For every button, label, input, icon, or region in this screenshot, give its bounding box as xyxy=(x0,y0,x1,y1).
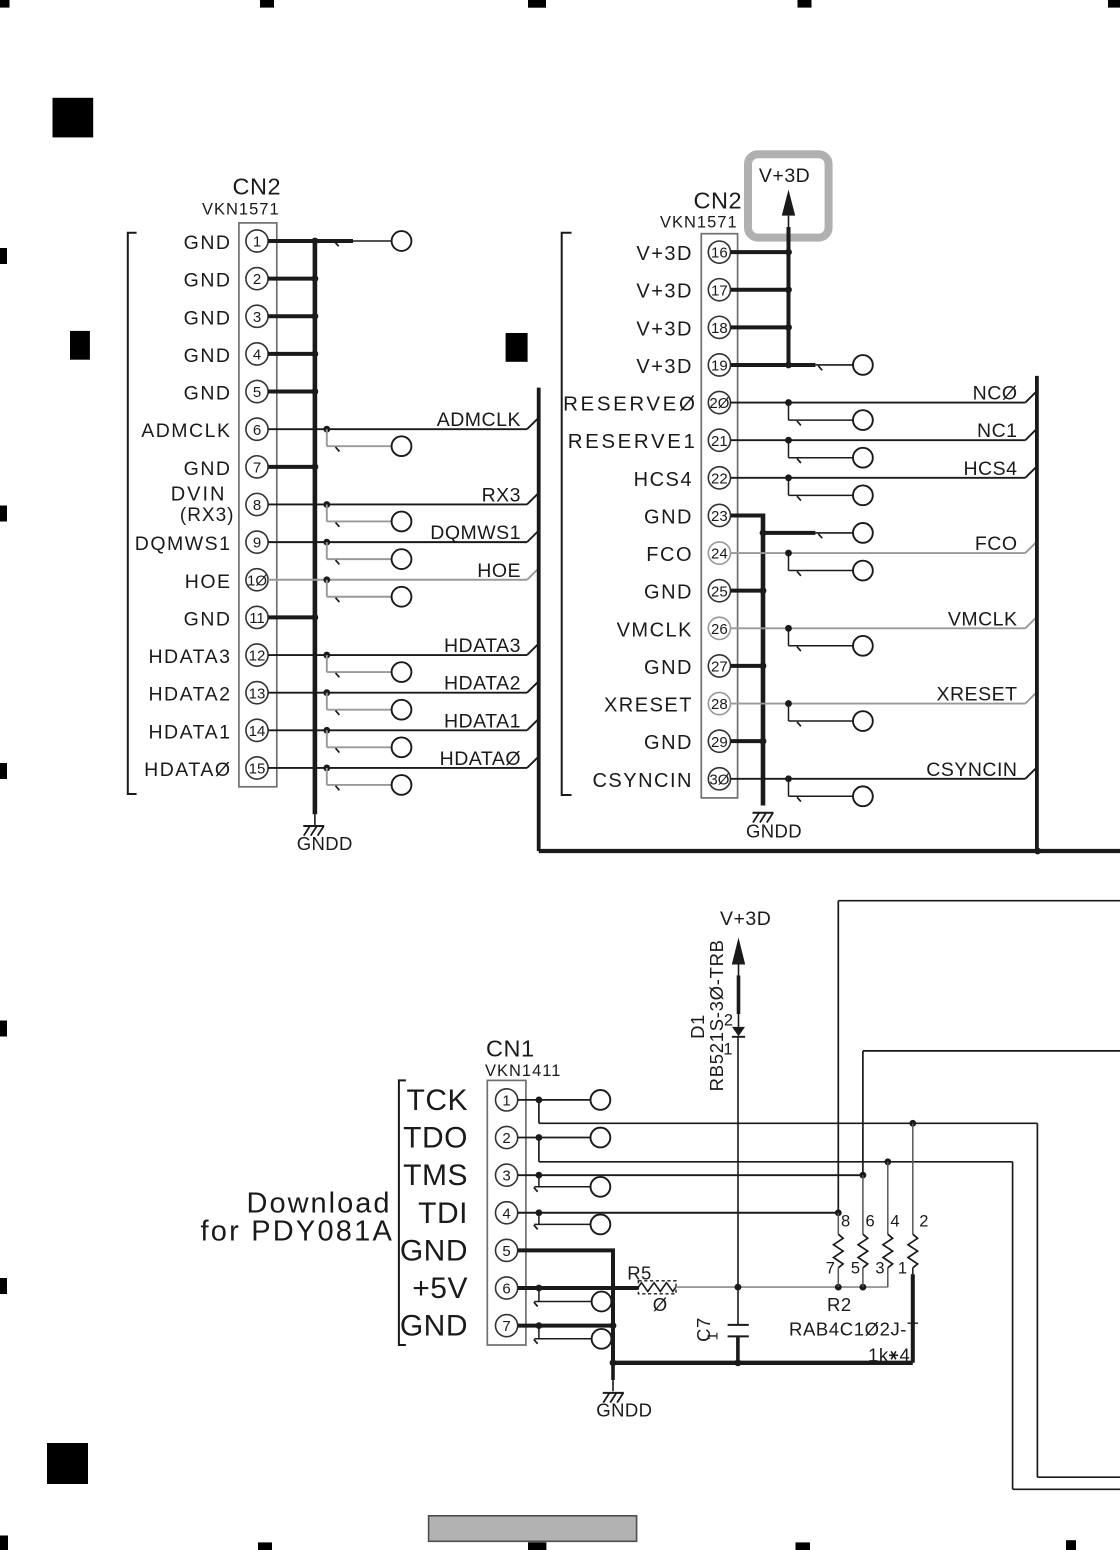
wire TMS (pin 3) xyxy=(518,1051,1120,1179)
svg-text:GNDD: GNDD xyxy=(596,1400,652,1421)
wire R5 to R2 commons xyxy=(676,1284,888,1291)
pin 13 circle (CN2 left) xyxy=(246,682,268,704)
svg-text:CN2: CN2 xyxy=(694,188,743,214)
svg-text:TDI: TDI xyxy=(418,1197,468,1230)
svg-text:1: 1 xyxy=(253,234,261,251)
svg-text:14: 14 xyxy=(249,723,266,740)
svg-text:GND: GND xyxy=(184,307,232,329)
test point circle TDI xyxy=(591,1215,611,1235)
test point branch DQMWS1 xyxy=(327,542,392,564)
test point branch HDATA1 xyxy=(327,730,392,752)
svg-text:8: 8 xyxy=(841,1213,851,1231)
connector CN2 (VKN1571) pins 16-30 body xyxy=(701,234,737,798)
svg-text:V+3D: V+3D xyxy=(759,165,810,187)
svg-text:2Ø: 2Ø xyxy=(709,395,729,412)
test point circle TDO xyxy=(591,1128,611,1148)
svg-text:HCS4: HCS4 xyxy=(963,458,1017,480)
V+3D arrow xyxy=(782,190,795,216)
test point circle FCO xyxy=(853,561,873,581)
test point branch ADMCLK xyxy=(327,429,392,451)
pin 2 circle (CN1) xyxy=(496,1126,518,1148)
svg-text:GND: GND xyxy=(644,506,693,528)
test point circle +5V xyxy=(592,1292,612,1312)
svg-text:HDATAØ: HDATAØ xyxy=(144,759,231,781)
wire TDO (pin 2) xyxy=(518,1134,1120,1489)
test point circle pin 1 xyxy=(392,231,412,251)
svg-text:HDATA1: HDATA1 xyxy=(148,721,231,743)
pin 20 circle (CN2 right) xyxy=(708,391,730,413)
wire left bus (off-page to bottom) xyxy=(539,388,1120,855)
pin 10 circle (CN2 left) xyxy=(246,569,268,591)
svg-text:VMCLK: VMCLK xyxy=(617,619,693,641)
pin 21 circle (CN2 right) xyxy=(708,429,730,451)
wire RX3 (pin 8) xyxy=(268,493,539,508)
wire HDATA2 (pin 13) xyxy=(268,681,539,696)
svg-text:23: 23 xyxy=(711,508,728,525)
test point circle NCØ xyxy=(853,410,873,430)
bracket pins 1-15 xyxy=(128,233,137,794)
test point circle HDATAØ xyxy=(392,775,412,795)
svg-text:1: 1 xyxy=(898,1259,908,1277)
svg-text:GND: GND xyxy=(184,458,232,480)
svg-text:13: 13 xyxy=(249,685,266,702)
svg-text:GND: GND xyxy=(644,732,693,754)
svg-text:GNDD: GNDD xyxy=(297,833,353,854)
svg-text:6: 6 xyxy=(502,1281,510,1298)
svg-text:GND: GND xyxy=(184,383,232,405)
svg-text:+5V: +5V xyxy=(412,1272,468,1305)
wire GND test point branch xyxy=(763,533,853,538)
svg-text:8: 8 xyxy=(253,497,261,514)
pin 19 circle (CN2 right) xyxy=(708,354,730,376)
svg-text:25: 25 xyxy=(711,583,728,600)
test point circle GND (right) xyxy=(853,523,873,543)
svg-text:4: 4 xyxy=(253,347,261,364)
svg-text:5: 5 xyxy=(502,1243,510,1260)
pin 1 circle (CN1) xyxy=(496,1089,518,1111)
svg-text:V+3D: V+3D xyxy=(636,281,693,303)
svg-text:7: 7 xyxy=(253,459,261,476)
svg-text:HCS4: HCS4 xyxy=(634,469,693,491)
svg-text:VKN1411: VKN1411 xyxy=(485,1062,561,1080)
svg-text:HDATA1: HDATA1 xyxy=(444,710,521,732)
wire HOE (pin 10) xyxy=(268,568,539,583)
wire GNDD net (CN1 bottom) xyxy=(610,1359,913,1391)
pin 3 circle (CN2 left) xyxy=(246,305,268,327)
test point circle pin 19 xyxy=(853,355,873,375)
connector CN2 (VKN1571) pins 1-15 body xyxy=(239,223,277,787)
wire FCO (pin 24) xyxy=(731,542,1037,557)
test point circle NC1 xyxy=(853,448,873,468)
wire VMCLK (pin 26) xyxy=(731,617,1037,632)
svg-text:VKN1571: VKN1571 xyxy=(202,201,280,219)
svg-text:1: 1 xyxy=(705,1332,722,1341)
svg-text:2: 2 xyxy=(919,1213,929,1231)
wire NCØ (pin 20) xyxy=(731,391,1037,406)
svg-text:22: 22 xyxy=(711,470,728,487)
svg-text:DQMWS1: DQMWS1 xyxy=(135,533,232,555)
svg-text:3: 3 xyxy=(875,1259,885,1277)
svg-text:4: 4 xyxy=(900,1345,911,1366)
test point branch NC1 xyxy=(789,440,854,463)
pin 7 circle (CN1) xyxy=(496,1315,518,1337)
pin 18 circle (CN2 right) xyxy=(708,316,730,338)
wire ADMCLK (pin 6) xyxy=(268,418,539,433)
svg-text:RAB4C1Ø2J-T: RAB4C1Ø2J-T xyxy=(789,1319,919,1340)
pin 27 circle (CN2 right) xyxy=(708,655,730,677)
wire HDATA3 (pin 12) xyxy=(268,644,539,659)
ground symbol GNDD (CN1) xyxy=(603,1393,624,1403)
pin 14 circle (CN2 left) xyxy=(246,719,268,741)
bracket CN1 pins xyxy=(399,1080,406,1345)
test point circle HDATA3 xyxy=(392,662,412,682)
svg-text:XRESET: XRESET xyxy=(936,684,1017,706)
wire HDATAØ (pin 15) xyxy=(268,756,539,771)
svg-text:GND: GND xyxy=(644,582,693,604)
svg-text:RB521S-3Ø-TRB: RB521S-3Ø-TRB xyxy=(706,939,727,1091)
pin 28 circle (CN2 right) xyxy=(708,692,730,714)
wire GND (pin 5) xyxy=(518,1250,615,1362)
pin 23 circle (CN2 right) xyxy=(708,504,730,526)
wire HDATA1 (pin 14) xyxy=(268,719,539,734)
capacitor C7 xyxy=(728,1325,749,1363)
wire XRESET (pin 28) xyxy=(731,692,1037,707)
svg-text:GND: GND xyxy=(184,345,232,367)
svg-text:CN1: CN1 xyxy=(486,1036,535,1062)
connector CN1 (VKN1411) body xyxy=(487,1080,526,1345)
pin 7 circle (CN2 left) xyxy=(246,456,268,478)
svg-text:11: 11 xyxy=(249,610,265,627)
svg-text:7: 7 xyxy=(826,1259,836,1277)
pin 16 circle (CN2 right) xyxy=(708,241,730,263)
svg-text:R5: R5 xyxy=(627,1262,652,1283)
test point branch GND (pin 7) xyxy=(534,1326,592,1344)
test point branch XRESET xyxy=(789,704,854,727)
pin 8 label DVIN (RX3) xyxy=(171,483,235,526)
svg-text:V+3D: V+3D xyxy=(636,356,693,378)
wire D1 anode to C7 xyxy=(737,1037,739,1325)
test point branch RX3 xyxy=(327,504,392,526)
svg-text:Ø: Ø xyxy=(653,1294,668,1315)
pin 25 circle (CN2 right) xyxy=(708,580,730,602)
svg-text:24: 24 xyxy=(711,546,728,563)
svg-text:FCO: FCO xyxy=(975,533,1018,555)
pin 3 circle (CN1) xyxy=(496,1164,518,1186)
power symbol V+3D (rounded box) xyxy=(748,154,829,237)
svg-text:GND: GND xyxy=(184,270,232,292)
test point circle TCK xyxy=(591,1090,611,1110)
svg-text:1k: 1k xyxy=(868,1345,889,1366)
svg-text:NC1: NC1 xyxy=(977,420,1018,442)
pin 4 circle (CN1) xyxy=(496,1202,518,1224)
test point circle ADMCLK xyxy=(392,436,412,456)
svg-text:ADMCLK: ADMCLK xyxy=(141,420,231,442)
wire TDI (pin 4) xyxy=(518,901,1120,1216)
svg-text:NCØ: NCØ xyxy=(973,383,1018,405)
svg-text:1: 1 xyxy=(502,1093,510,1110)
svg-text:6: 6 xyxy=(866,1213,876,1231)
svg-text:GND: GND xyxy=(184,232,232,254)
pin 15 circle (CN2 left) xyxy=(246,757,268,779)
svg-text:CSYNCIN: CSYNCIN xyxy=(592,770,693,792)
test point circle GND (pin 7) xyxy=(592,1329,612,1349)
wire GNDD bus (right CN2) xyxy=(731,515,767,805)
wire HCS4 (pin 22) xyxy=(731,466,1037,481)
resistor network R2 (RAB4C102J-T 1k*4) xyxy=(834,1123,918,1363)
svg-text:1Ø: 1Ø xyxy=(247,572,267,589)
svg-text:GND: GND xyxy=(400,1310,468,1343)
pin 1 circle (CN2 left) xyxy=(246,230,268,252)
svg-text:TCK: TCK xyxy=(407,1084,469,1117)
test point branch TDI xyxy=(534,1213,591,1230)
pin 2 circle (CN2 left) xyxy=(246,268,268,290)
wire GND (pin 7) xyxy=(518,1322,617,1329)
pin 12 circle (CN2 left) xyxy=(246,644,268,666)
test point branch FCO xyxy=(789,553,854,576)
svg-text:3: 3 xyxy=(502,1168,510,1185)
pin 24 circle (CN2 right) xyxy=(708,542,730,564)
wire CSYNCIN (pin 30) xyxy=(731,767,1037,782)
test point branch HDATA2 xyxy=(327,693,392,715)
test point circle HCS4 xyxy=(853,485,873,505)
test point branch HCS4 xyxy=(789,478,854,501)
svg-text:CSYNCIN: CSYNCIN xyxy=(926,759,1017,781)
svg-text:RESERVE1: RESERVE1 xyxy=(568,430,698,453)
pin 30 circle (CN2 right) xyxy=(708,768,730,790)
test point branch VMCLK xyxy=(789,628,854,651)
test point branch +5V xyxy=(534,1288,592,1307)
svg-text:17: 17 xyxy=(711,282,728,299)
wire V+3D rail xyxy=(731,216,792,369)
svg-text:GND: GND xyxy=(644,657,693,679)
test point circle HDATA2 xyxy=(392,700,412,720)
ground symbol GNDD (right CN2) xyxy=(753,813,774,823)
svg-text:VKN1571: VKN1571 xyxy=(660,214,738,232)
svg-text:29: 29 xyxy=(711,734,728,751)
svg-text:RX3: RX3 xyxy=(482,484,521,506)
pin 26 circle (CN2 right) xyxy=(708,617,730,639)
test point branch HDATAØ xyxy=(327,768,392,790)
wire pin 1 test point xyxy=(317,241,392,246)
svg-text:RESERVEØ: RESERVEØ xyxy=(563,393,697,416)
svg-text:9: 9 xyxy=(253,535,261,552)
svg-text:2: 2 xyxy=(253,271,261,288)
pin 4 circle (CN2 left) xyxy=(246,343,268,365)
test point circle HDATA1 xyxy=(392,737,412,757)
wire TCK (pin 1) xyxy=(518,1097,1120,1478)
wire pin 19 test point xyxy=(791,365,854,370)
svg-text:15: 15 xyxy=(249,761,266,778)
wire GNDD bus (left CN2) xyxy=(268,238,318,826)
test point branch CSYNCIN xyxy=(789,779,854,802)
svg-text:for PDY081A: for PDY081A xyxy=(201,1216,394,1248)
test point branch TMS xyxy=(534,1175,591,1192)
pin 5 circle (CN2 left) xyxy=(246,380,268,402)
wire +5V (pin 6) xyxy=(518,1285,639,1292)
svg-text:FCO: FCO xyxy=(646,544,693,566)
test point circle TMS xyxy=(591,1177,611,1197)
svg-text:16: 16 xyxy=(711,245,728,262)
pin 6 circle (CN1) xyxy=(496,1277,518,1299)
svg-text:21: 21 xyxy=(711,433,728,450)
diode D1 xyxy=(732,965,745,1037)
gray panel (masked note) xyxy=(429,1516,637,1542)
test point circle CSYNCIN xyxy=(853,786,873,806)
svg-text:3Ø: 3Ø xyxy=(709,771,729,788)
svg-text:CN2: CN2 xyxy=(233,174,282,200)
svg-text:3: 3 xyxy=(253,309,261,326)
svg-text:HDATA3: HDATA3 xyxy=(444,635,521,657)
svg-text:V+3D: V+3D xyxy=(636,318,693,340)
resistor R5 xyxy=(638,1281,676,1294)
annotation Download for PDY081A xyxy=(201,1188,394,1248)
svg-text:7: 7 xyxy=(502,1318,510,1335)
svg-text:4: 4 xyxy=(502,1205,510,1222)
svg-text:HOE: HOE xyxy=(185,571,232,593)
pin 11 circle (CN2 left) xyxy=(246,606,268,628)
svg-text:DQMWS1: DQMWS1 xyxy=(430,522,521,544)
ground symbol GNDD (left CN2) xyxy=(303,826,324,836)
test point circle VMCLK xyxy=(853,636,873,656)
svg-text:DVIN: DVIN xyxy=(171,483,227,505)
svg-text:TDO: TDO xyxy=(403,1122,468,1155)
R2 value label 1k*4 xyxy=(868,1345,910,1366)
pin 5 circle (CN1) xyxy=(496,1239,518,1261)
wire NC1 (pin 21) xyxy=(731,429,1037,444)
svg-text:V+3D: V+3D xyxy=(720,908,771,930)
svg-text:18: 18 xyxy=(711,320,728,337)
pin 8 circle (CN2 left) xyxy=(246,493,268,515)
svg-text:27: 27 xyxy=(711,659,728,676)
svg-text:TMS: TMS xyxy=(403,1159,468,1192)
svg-text:R2: R2 xyxy=(827,1294,852,1315)
svg-text:28: 28 xyxy=(711,696,728,713)
svg-text:5: 5 xyxy=(851,1259,861,1277)
svg-text:5: 5 xyxy=(253,384,261,401)
svg-text:GND: GND xyxy=(400,1234,468,1267)
svg-text:HDATAØ: HDATAØ xyxy=(440,748,521,770)
svg-text:HOE: HOE xyxy=(477,560,521,582)
wire DQMWS1 (pin 9) xyxy=(268,531,539,546)
svg-text:ADMCLK: ADMCLK xyxy=(437,409,521,431)
pin 22 circle (CN2 right) xyxy=(708,467,730,489)
svg-text:XRESET: XRESET xyxy=(604,695,693,717)
svg-text:2: 2 xyxy=(502,1130,510,1147)
svg-text:GNDD: GNDD xyxy=(746,821,802,842)
wire right bus xyxy=(1035,376,1039,851)
svg-text:6: 6 xyxy=(253,422,261,439)
test point circle HOE xyxy=(392,587,412,607)
svg-text:GND: GND xyxy=(184,608,232,630)
svg-text:HDATA2: HDATA2 xyxy=(148,684,231,706)
test point branch HOE xyxy=(327,580,392,602)
power symbol V+3D (D1) xyxy=(720,908,771,965)
svg-text:(RX3): (RX3) xyxy=(180,505,235,526)
svg-text:D1: D1 xyxy=(687,1014,708,1039)
svg-text:19: 19 xyxy=(711,358,728,375)
svg-text:26: 26 xyxy=(711,621,728,638)
test point branch NCØ xyxy=(789,403,854,426)
pin 6 circle (CN2 left) xyxy=(246,418,268,440)
test point circle RX3 xyxy=(392,512,412,532)
pin 17 circle (CN2 right) xyxy=(708,279,730,301)
pin 29 circle (CN2 right) xyxy=(708,730,730,752)
bracket pins 16-30 xyxy=(562,233,572,795)
test point branch HDATA3 xyxy=(327,655,392,677)
svg-text:V+3D: V+3D xyxy=(636,243,693,265)
test point circle DQMWS1 xyxy=(392,549,412,569)
svg-text:HDATA2: HDATA2 xyxy=(444,673,521,695)
svg-text:HDATA3: HDATA3 xyxy=(148,646,231,668)
svg-text:4: 4 xyxy=(890,1213,900,1231)
svg-text:12: 12 xyxy=(249,648,266,665)
test point circle XRESET xyxy=(853,711,873,731)
svg-text:VMCLK: VMCLK xyxy=(948,608,1018,630)
pin 9 circle (CN2 left) xyxy=(246,531,268,553)
